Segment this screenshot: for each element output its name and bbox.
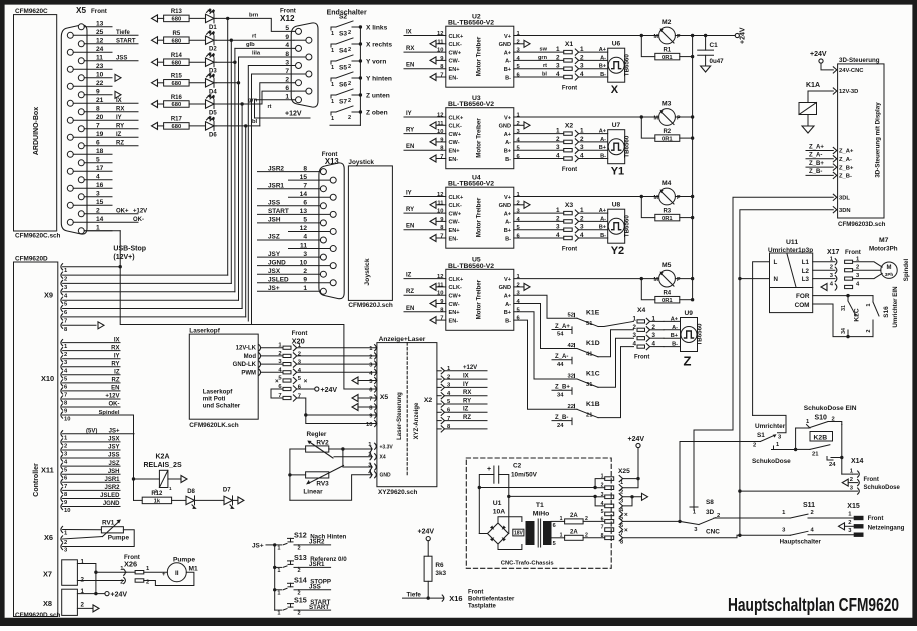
svg-text:+24V: +24V: [740, 27, 747, 44]
svg-text:IZ: IZ: [463, 407, 469, 413]
U4 input arrow pin9: [430, 218, 436, 225]
svg-text:SchukoDose: SchukoDose: [752, 458, 791, 465]
svg-text:44: 44: [557, 362, 564, 368]
X5 pin 11: [78, 58, 84, 64]
wire X8 pin1 +24V: [77, 593, 104, 595]
svg-text:IX: IX: [116, 98, 122, 104]
svg-text:K2C: K2C: [854, 308, 861, 321]
svg-text:JGND: JGND: [103, 501, 120, 507]
X11 pin 10 JGND: [61, 503, 63, 509]
X17 pin4 arrow: [821, 284, 827, 291]
svg-text:OK-: OK-: [109, 402, 120, 408]
svg-text:2: 2: [517, 121, 520, 127]
wire to +24V terminal: [693, 35, 736, 37]
X5 pin 9: [78, 92, 84, 98]
svg-text:RX: RX: [406, 46, 414, 52]
svg-text:Motor Treiber: Motor Treiber: [476, 279, 483, 319]
svg-text:X25: X25: [618, 468, 630, 475]
svg-text:JSX: JSX: [108, 437, 119, 443]
wire 3DL: [694, 197, 833, 507]
svg-text:X8: X8: [43, 599, 52, 608]
X11 pin 8 JSR2: [61, 487, 63, 493]
svg-text:×: ×: [624, 512, 628, 519]
svg-text:7: 7: [64, 318, 67, 324]
svg-text:CLK+: CLK+: [449, 115, 464, 121]
wire U11 N: [740, 278, 770, 280]
svg-text:RX: RX: [116, 107, 124, 113]
X11 pin 7 JSR1: [61, 479, 63, 485]
svg-text:10: 10: [300, 259, 308, 266]
switch S1 Umrichter: [753, 415, 786, 432]
svg-text:2: 2: [303, 268, 307, 275]
LED D5: [206, 100, 215, 108]
resistor R5 680: [152, 37, 158, 44]
svg-text:IY: IY: [406, 111, 412, 117]
X11 pin 6 JSH: [61, 471, 63, 477]
svg-text:X15: X15: [847, 503, 860, 510]
svg-text:M: M: [654, 34, 659, 40]
svg-text:R1: R1: [663, 47, 671, 53]
svg-text:Netzeingang: Netzeingang: [868, 525, 905, 532]
svg-text:2: 2: [348, 47, 351, 53]
svg-text:R14: R14: [171, 53, 183, 59]
X20 pin6 +24V terminal: [297, 388, 315, 390]
svg-text:Front: Front: [562, 167, 577, 173]
svg-text:Joystick: Joystick: [364, 258, 371, 285]
svg-text:X5: X5: [380, 394, 389, 401]
svg-text:10: 10: [437, 48, 443, 54]
svg-text:L1: L1: [802, 259, 810, 266]
svg-text:A-: A-: [505, 302, 511, 308]
svg-text:3DL: 3DL: [839, 196, 850, 202]
wire S8-CNC chain to S1: [680, 442, 760, 522]
motor driver U4 BL-TB6560-V2: [446, 187, 514, 248]
svg-text:7: 7: [64, 484, 67, 490]
ground symbol: [701, 66, 711, 72]
svg-text:M: M: [654, 277, 659, 283]
svg-text:BL-TB6560-V2: BL-TB6560-V2: [448, 20, 494, 27]
svg-text:IY: IY: [406, 191, 412, 197]
svg-text:RX: RX: [111, 345, 119, 351]
svg-text:RX: RX: [463, 390, 471, 396]
wire K1C to X4 pin3: [598, 338, 634, 387]
svg-text:RZ: RZ: [116, 141, 124, 147]
svg-text:lila: lila: [252, 51, 261, 57]
svg-text:B+: B+: [504, 228, 512, 234]
3D box pin 12V-3D: [833, 88, 837, 94]
svg-text:D2: D2: [209, 47, 217, 53]
svg-text:Front: Front: [845, 249, 861, 256]
svg-text:grn: grn: [248, 98, 258, 104]
wire X20 3 to Anzeige: [297, 363, 377, 365]
svg-text:17: 17: [96, 165, 104, 172]
svg-text:Y hinten: Y hinten: [366, 76, 392, 83]
U3 input arrow pin9: [430, 138, 436, 145]
svg-text:JSY: JSY: [108, 445, 119, 451]
svg-text:1: 1: [693, 510, 696, 516]
svg-text:21: 21: [96, 97, 104, 104]
svg-text:24: 24: [96, 46, 104, 53]
svg-text:JSS: JSS: [268, 200, 281, 207]
svg-text:EN-: EN-: [449, 236, 459, 242]
svg-text:Linear: Linear: [303, 489, 323, 496]
X13 pin 14: [330, 194, 336, 200]
wire M5 shunt branch: [640, 277, 643, 280]
svg-text:B-: B-: [505, 318, 511, 324]
svg-text:K1B: K1B: [586, 401, 600, 408]
svg-text:CW+: CW+: [449, 50, 462, 56]
3D box pin Z_A+: [833, 147, 837, 153]
svg-text:S2: S2: [339, 14, 347, 21]
svg-text:S11: S11: [803, 502, 815, 509]
svg-text:7: 7: [298, 394, 301, 400]
Anzeige pin 3: [375, 464, 377, 470]
U3 input arrow pin7: [430, 155, 436, 162]
svg-text:B+: B+: [599, 64, 607, 70]
svg-text:D1: D1: [209, 25, 217, 31]
svg-text:41: 41: [586, 352, 593, 358]
svg-text:10m/50V: 10m/50V: [511, 472, 538, 479]
svg-text:M1: M1: [189, 566, 198, 573]
svg-text:12V-3D: 12V-3D: [839, 89, 858, 95]
motor symbol M3: [659, 109, 676, 126]
svg-text:EN: EN: [406, 144, 414, 150]
svg-text:GND: GND: [499, 42, 511, 48]
svg-text:14: 14: [300, 191, 308, 198]
svg-text:2: 2: [348, 81, 351, 87]
wire DC rail -: [509, 495, 595, 497]
X13 pin 12: [330, 228, 336, 234]
U3 GND arrow: [514, 124, 524, 126]
svg-text:7: 7: [601, 525, 604, 531]
svg-text:START: START: [268, 208, 289, 215]
svg-text:V+: V+: [504, 277, 512, 283]
svg-text:IX: IX: [114, 337, 120, 343]
svg-text:JSH: JSH: [268, 217, 281, 224]
Anzeige right pin IX: [441, 376, 444, 382]
svg-text:V+: V+: [504, 115, 512, 121]
svg-text:CLK-: CLK-: [449, 285, 462, 291]
X5 pin 25: [67, 32, 73, 38]
svg-text:3: 3: [303, 251, 307, 258]
svg-text:EN+: EN+: [449, 228, 461, 234]
wire RV ground loop: [289, 449, 291, 500]
svg-text:A+: A+: [599, 129, 607, 135]
wire S10/K2B to X14: [841, 425, 843, 475]
wire X8 pin2 arrow: [77, 607, 93, 609]
svg-text:EN-: EN-: [449, 75, 459, 81]
svg-text:CFM9620LK.sch: CFM9620LK.sch: [189, 422, 238, 429]
svg-text:GND: GND: [499, 203, 511, 209]
svg-text:54: 54: [557, 332, 564, 338]
Anzeige right pin IY: [441, 384, 444, 390]
svg-text:34: 34: [557, 393, 564, 399]
svg-text:0u47: 0u47: [710, 58, 725, 65]
X15 pin2 arrow: [839, 523, 845, 530]
svg-text:CW+: CW+: [449, 211, 462, 217]
svg-text:10A: 10A: [493, 509, 506, 516]
svg-text:R13: R13: [171, 9, 183, 15]
svg-text:2: 2: [601, 483, 604, 489]
svg-text:R4: R4: [663, 290, 671, 296]
resistor R12 1k: [134, 499, 143, 501]
X9 pin 5: [61, 297, 63, 303]
svg-text:2: 2: [517, 282, 520, 288]
svg-text:25: 25: [96, 29, 104, 36]
svg-text:2: 2: [848, 520, 851, 526]
wire M3 shunt branch: [640, 115, 643, 118]
svg-text:L3: L3: [802, 276, 810, 283]
svg-text:R2: R2: [663, 129, 671, 135]
svg-text:R6: R6: [435, 562, 444, 569]
svg-text:Motor Treiber: Motor Treiber: [476, 118, 483, 158]
U2 GND arrow: [514, 43, 524, 45]
svg-text:15: 15: [300, 174, 308, 181]
svg-text:K1D: K1D: [586, 340, 600, 347]
U3 input arrow pin11: [430, 122, 436, 129]
push button S13 Referenz 0/0: [275, 566, 282, 568]
svg-text:1: 1: [331, 48, 334, 54]
svg-text:A-: A-: [505, 59, 511, 65]
wire U5 outputs routing: [514, 295, 577, 318]
svg-text:1: 1: [277, 568, 280, 574]
svg-text:16: 16: [96, 182, 104, 189]
svg-text:und Schalter: und Schalter: [203, 403, 241, 410]
svg-text:Y2: Y2: [611, 245, 624, 257]
svg-text:8: 8: [303, 165, 307, 172]
U4 input arrow pin11: [430, 201, 436, 208]
svg-text:2: 2: [64, 443, 67, 449]
motor symbol M5: [659, 270, 676, 287]
svg-text:1: 1: [277, 590, 280, 596]
X5 pin 6: [78, 143, 84, 149]
X9 pin 2: [61, 272, 63, 278]
svg-text:IY: IY: [114, 353, 120, 359]
svg-text:20: 20: [96, 114, 104, 121]
svg-text:EN: EN: [406, 224, 414, 230]
svg-text:Tiefe: Tiefe: [407, 591, 422, 598]
Anzeige left pin 8: [375, 404, 377, 410]
svg-text:R3: R3: [663, 208, 671, 214]
motor driver U2 BL-TB6560-V2: [446, 26, 514, 87]
svg-text:2: 2: [64, 352, 67, 358]
wire M4 shunt branch: [640, 195, 643, 198]
svg-text:BL-TB6560-V2: BL-TB6560-V2: [448, 181, 494, 188]
svg-text:CLK+: CLK+: [449, 277, 464, 283]
wire X20 2 to Anzeige: [297, 355, 377, 357]
svg-text:×: ×: [275, 378, 279, 385]
svg-text:CFM9620D: CFM9620D: [15, 256, 48, 263]
svg-text:IY: IY: [463, 382, 469, 388]
svg-text:B-: B-: [505, 75, 511, 81]
svg-text:2: 2: [517, 39, 520, 45]
X12 pin 4: [296, 45, 302, 51]
svg-text:CW+: CW+: [449, 132, 462, 138]
X12 pin 5: [296, 28, 302, 34]
svg-text:2: 2: [348, 30, 351, 36]
X10 pin 9 OK-: [61, 404, 63, 410]
svg-text:X: X: [611, 84, 619, 96]
svg-text:Front: Front: [468, 590, 483, 596]
X5 pin 8: [78, 109, 84, 115]
Anzeige left pin 5: [375, 377, 377, 383]
push button S12 Nach Hinten: [275, 544, 282, 546]
svg-text:RY: RY: [406, 128, 414, 134]
svg-text:X rechts: X rechts: [366, 42, 392, 49]
resistor R17 680: [152, 122, 158, 129]
X13 pin 5 JSH: [320, 220, 326, 226]
svg-text:2A: 2A: [570, 529, 578, 535]
svg-text:10: 10: [437, 291, 443, 297]
svg-text:5: 5: [601, 509, 604, 515]
svg-text:JSR2: JSR2: [268, 165, 284, 172]
X9 pin 4: [61, 289, 63, 295]
wire X20 1 to Anzeige: [297, 347, 377, 349]
X5 pin 1: [78, 228, 84, 234]
X13 pin 6 JSS: [320, 203, 326, 209]
svg-text:S15: S15: [294, 596, 307, 605]
svg-text:9: 9: [303, 276, 307, 283]
svg-text:680: 680: [172, 102, 182, 108]
X6 pin 1: [61, 526, 63, 532]
wire X12 pin7: [252, 74, 295, 325]
Anzeige right pin RX: [441, 393, 444, 399]
svg-text:1: 1: [601, 474, 604, 480]
svg-text:Motor Treiber: Motor Treiber: [476, 197, 483, 237]
svg-text:2: 2: [64, 540, 67, 546]
resistor R1 0R1: [655, 53, 680, 60]
X5 pin 13: [78, 24, 84, 30]
svg-text:R16: R16: [171, 95, 183, 101]
svg-text:7: 7: [64, 392, 67, 398]
svg-text:Front: Front: [562, 85, 577, 91]
svg-text:EN+: EN+: [449, 149, 461, 155]
svg-text:B-: B-: [600, 233, 606, 239]
svg-text:RV3: RV3: [316, 481, 329, 488]
svg-text:Z_A+: Z_A+: [839, 149, 854, 155]
svg-text:JS+: JS+: [252, 543, 264, 550]
svg-text:Regler: Regler: [307, 431, 327, 438]
svg-text:C2: C2: [513, 463, 522, 470]
X5 pin 3: [78, 194, 84, 200]
3D box pin 24V-CNC: [833, 67, 837, 73]
svg-text:12V-LK: 12V-LK: [236, 346, 257, 352]
svg-text:S10: S10: [815, 415, 828, 422]
svg-text:3: 3: [633, 332, 637, 339]
X12 pin 7: [306, 71, 312, 77]
U5 GND arrow: [514, 286, 524, 288]
motor symbol M2: [659, 27, 676, 44]
svg-text:7: 7: [440, 316, 443, 322]
X5 pin 12: [78, 41, 84, 47]
svg-text:4: 4: [633, 341, 637, 348]
svg-text:CW+: CW+: [449, 294, 462, 300]
svg-text:C1: C1: [710, 42, 719, 49]
LED D6: [206, 122, 215, 130]
svg-text:3D: 3D: [706, 509, 715, 516]
svg-text:0R1: 0R1: [662, 216, 673, 222]
svg-text:L: L: [774, 259, 778, 266]
svg-text:24: 24: [557, 423, 564, 429]
svg-text:12: 12: [300, 225, 308, 232]
svg-text:Front: Front: [91, 8, 107, 15]
svg-text:X5: X5: [76, 6, 86, 15]
Anzeige pin +3.3V: [375, 443, 377, 449]
svg-text:CNC-Trafo-Chassis: CNC-Trafo-Chassis: [501, 561, 554, 567]
wire X12 pin1 to +12V: [255, 100, 311, 118]
svg-text:EN: EN: [406, 63, 414, 69]
wire X7 pin1: [77, 564, 96, 573]
svg-text:680: 680: [172, 81, 182, 87]
svg-text:51: 51: [586, 321, 593, 327]
svg-text:IX: IX: [463, 374, 469, 380]
svg-text:1: 1: [633, 315, 637, 322]
svg-text:Umrichter: Umrichter: [755, 423, 786, 430]
resistor R14 680: [152, 59, 158, 66]
svg-text:+: +: [487, 466, 491, 473]
svg-text:MiHo: MiHo: [533, 511, 550, 518]
svg-text:680: 680: [172, 17, 182, 23]
svg-text:4: 4: [303, 234, 307, 241]
wire X7 pin2: [77, 580, 123, 582]
X5 pin 17: [67, 168, 73, 174]
svg-text:JSZ: JSZ: [108, 461, 119, 467]
svg-text:+12V: +12V: [105, 394, 119, 400]
3D box pin Z_B+: [833, 164, 837, 170]
svg-text:Z oben: Z oben: [366, 110, 388, 117]
svg-text:Z_B+: Z_B+: [809, 161, 824, 167]
svg-text:TB6560: TB6560: [624, 54, 631, 77]
svg-text:S3: S3: [339, 31, 347, 38]
svg-text:1: 1: [331, 116, 334, 122]
svg-text:11: 11: [437, 39, 444, 45]
svg-text:GND: GND: [499, 285, 511, 291]
svg-text:S12: S12: [294, 530, 307, 539]
svg-text:2: 2: [298, 568, 301, 574]
svg-text:R17: R17: [171, 117, 183, 123]
svg-text:2: 2: [298, 545, 301, 551]
resistor R4 0R1: [655, 296, 680, 303]
svg-text:8: 8: [96, 106, 100, 113]
X10 pin 4 RY: [61, 364, 63, 370]
potentiometer RV3 Linear: [306, 472, 329, 478]
svg-text:B-: B-: [505, 236, 511, 242]
svg-text:M2: M2: [662, 19, 672, 26]
svg-text:CW-: CW-: [449, 220, 460, 226]
LED D3: [206, 58, 215, 66]
svg-text:3D-Steuerung: 3D-Steuerung: [839, 57, 880, 64]
svg-text:34: 34: [841, 328, 847, 334]
svg-text:U1: U1: [493, 500, 502, 507]
U2 input arrow pin9: [430, 57, 436, 64]
svg-text:Laserkopf: Laserkopf: [203, 389, 234, 396]
svg-text:K1C: K1C: [586, 371, 600, 378]
IC U8 TB6560: [608, 209, 625, 243]
svg-text:rt: rt: [268, 104, 272, 110]
X11 pin 2 JSX: [61, 439, 63, 445]
X12 pin 6: [306, 88, 312, 94]
terminal +24V: [735, 33, 739, 37]
X5 pin 10: [78, 75, 84, 81]
svg-text:680: 680: [172, 60, 182, 66]
svg-text:EN+: EN+: [449, 310, 461, 316]
svg-text:X11: X11: [41, 466, 54, 475]
svg-text:×: ×: [624, 527, 628, 534]
svg-text:1: 1: [277, 611, 280, 617]
X11 pin 5 JSZ: [61, 463, 63, 469]
svg-text:CLK-: CLK-: [449, 203, 462, 209]
svg-text:2: 2: [298, 611, 301, 617]
